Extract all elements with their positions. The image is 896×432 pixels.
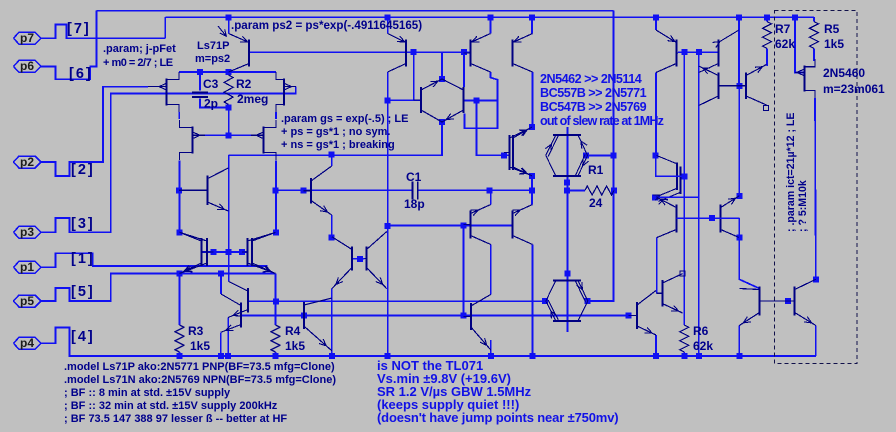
transistor Q6 clamp bbox=[463, 87, 465, 113]
junction dots vas bbox=[529, 173, 535, 179]
wire P1 emitter riser bbox=[228, 17, 230, 33]
resistor R6 bbox=[680, 325, 689, 352]
junction dots output bus bbox=[460, 313, 466, 319]
wire vas bottom drop bbox=[531, 176, 533, 205]
wire jfet drain tie bbox=[179, 71, 276, 73]
wire P2 collector drop bbox=[387, 72, 389, 356]
junction dots upper base bus bbox=[461, 49, 467, 55]
wire p6 net bbox=[41, 11, 96, 80]
transistor Q26 bias NPN bbox=[303, 302, 305, 329]
wire output drop to R1 level bbox=[613, 156, 615, 295]
junction dots C1 line bbox=[273, 187, 279, 193]
junction dots rail B bbox=[226, 14, 232, 20]
svg-text:(doesn't have jump points near: (doesn't have jump points near ±750mv) bbox=[377, 410, 618, 425]
transistor Q3 mirror PNP bbox=[470, 40, 472, 67]
svg-text:[4]: [4] bbox=[71, 329, 95, 345]
transistor Q7 tail NPN bbox=[240, 303, 242, 328]
jfet J5 2N5460 bbox=[803, 66, 805, 92]
junction dots clamp0 bbox=[439, 76, 445, 82]
dashed selection box bbox=[775, 11, 858, 364]
junction dots rail B bbox=[385, 14, 391, 20]
wire R6 bottom bbox=[683, 352, 685, 356]
junction dots V- rail bbox=[653, 353, 659, 359]
wire lower jfet gate tie bbox=[205, 134, 251, 136]
svg-text:18p: 18p bbox=[404, 197, 425, 211]
junction dots clamp1 chain bbox=[611, 188, 617, 194]
transistor Q19 flipped NPN bbox=[745, 73, 747, 100]
junction dots pnp base row bbox=[460, 223, 466, 229]
pin flag p5 bbox=[14, 295, 42, 307]
wire p1 net bbox=[41, 253, 268, 267]
wire J1-J3 link bbox=[178, 112, 180, 119]
svg-text:R7: R7 bbox=[775, 22, 791, 36]
transistor Q28 stub NPN bbox=[662, 280, 664, 307]
capacitor C3 bbox=[192, 92, 208, 94]
svg-text:R4: R4 bbox=[285, 324, 301, 338]
junction dot out base bbox=[785, 298, 791, 304]
wire R4 bottom bbox=[275, 352, 277, 356]
svg-text:2meg: 2meg bbox=[237, 92, 268, 106]
transistor Q7b tail NPN parallel bbox=[247, 288, 249, 313]
junction dots V- rail bbox=[329, 353, 335, 359]
transistor Q20 PNP bbox=[675, 40, 677, 67]
wire P6L emitter riser bbox=[738, 17, 740, 86]
wire Q23 Q24 base tie bbox=[677, 217, 740, 219]
wire C1 line left bbox=[276, 189, 413, 191]
wire C3 bottom lead bbox=[200, 99, 229, 108]
transistor Q11 NPN bbox=[351, 247, 353, 271]
wire right emitter to R4 bbox=[275, 274, 277, 326]
wire V+ rail B bbox=[165, 16, 814, 18]
wire vas base drop bbox=[477, 101, 510, 156]
junction dots vas bbox=[529, 187, 535, 193]
svg-text:24: 24 bbox=[589, 196, 603, 210]
wire Q7b emitter drop bbox=[227, 318, 229, 357]
wire mirror base bus bbox=[202, 251, 248, 253]
svg-text:p3: p3 bbox=[20, 225, 34, 239]
wire vas top to rail bbox=[531, 17, 533, 33]
svg-text:; BF :: 8 min at std. ±15V sup: ; BF :: 8 min at std. ±15V supply bbox=[64, 387, 231, 399]
svg-text:p7: p7 bbox=[20, 31, 34, 45]
wire p7 to rail B riser bbox=[164, 17, 166, 38]
svg-text:p5: p5 bbox=[20, 294, 34, 308]
svg-text:.param ps2 = ps*exp(-.49116451: .param ps2 = ps*exp(-.4911645165) bbox=[231, 19, 422, 32]
wire comp-out row bbox=[248, 300, 545, 302]
junction dots emitter taps bbox=[177, 271, 183, 277]
junction dots output bus bbox=[301, 313, 307, 319]
wire Qmid emitter tail bbox=[331, 351, 333, 356]
transistor Q33 cascode NPN bbox=[207, 176, 209, 206]
wire Q7 emitter drops bbox=[220, 332, 222, 356]
svg-text:1k5: 1k5 bbox=[824, 37, 844, 51]
wire right emitter row bbox=[230, 273, 276, 275]
wire pair330 left emitter drop bbox=[331, 289, 333, 356]
junction dots clamp1 chain bbox=[564, 188, 570, 194]
junction dots pnp base row bbox=[385, 223, 391, 229]
junction dots V- rail bbox=[177, 353, 183, 359]
wire output pnp base row bbox=[388, 225, 513, 227]
junction dot clamp2 top bbox=[565, 270, 571, 276]
junction dots C1 line bbox=[487, 187, 493, 193]
wire J3 source to mirror bbox=[179, 161, 181, 233]
svg-text:p6: p6 bbox=[20, 59, 34, 73]
wire out column bbox=[698, 52, 700, 356]
svg-text:R2: R2 bbox=[236, 77, 252, 91]
wire Ptr2 collector drop bbox=[739, 238, 759, 289]
junction dots mirror base bus bbox=[239, 249, 245, 255]
wire R7 bottom lead bbox=[766, 48, 769, 65]
svg-text:[5]: [5] bbox=[71, 284, 95, 300]
svg-text:[1]: [1] bbox=[71, 251, 95, 267]
wire P2 emitter riser bbox=[387, 17, 389, 33]
transistor Q5 clamp bbox=[420, 87, 422, 113]
svg-text:[3]: [3] bbox=[71, 216, 95, 232]
wire clamp chain vertical bbox=[566, 127, 568, 332]
svg-text:.model Ls71P ako:2N5771 PNP(BF: .model Ls71P ako:2N5771 PNP(BF=73.5 mfg=… bbox=[64, 361, 335, 373]
wire clamp0 bottom vertex down bbox=[229, 122, 442, 155]
wire clamp0 right base bbox=[464, 100, 498, 102]
svg-text:p1: p1 bbox=[20, 260, 34, 274]
junction dots V- rail bbox=[681, 353, 687, 359]
pin flag p6 bbox=[14, 60, 42, 72]
junction dots clamp2 bbox=[542, 298, 548, 304]
wire R5 top bbox=[813, 17, 815, 21]
wire Nob2 emitter to rail bbox=[655, 335, 657, 356]
svg-text:BC547B >> 2N5769: BC547B >> 2N5769 bbox=[540, 100, 647, 114]
transistor Q25 bias NPN bbox=[470, 303, 472, 330]
transistor Q21 PNP bbox=[717, 40, 719, 67]
wire output drop to clamp bottom bbox=[587, 295, 613, 302]
wire P4 collector to vas bbox=[532, 72, 534, 127]
svg-text:2N5462 >> 2N5114: 2N5462 >> 2N5114 bbox=[540, 72, 642, 86]
junction dots rail B bbox=[792, 14, 798, 20]
wire R1 left lead bbox=[567, 190, 585, 192]
wire clamp1 right vertex to out bbox=[586, 155, 614, 157]
wire P3 collector hook bbox=[465, 72, 498, 128]
svg-text:1k5: 1k5 bbox=[190, 339, 210, 353]
wire P5L base bus bbox=[678, 51, 718, 53]
transistor Q2 input mirror PNP bbox=[405, 40, 407, 67]
junction dot 5460 source bbox=[813, 276, 819, 282]
svg-text:BC557B >> 2N5771: BC557B >> 2N5771 bbox=[540, 86, 647, 100]
svg-text:[2]: [2] bbox=[71, 162, 95, 178]
pin flag p3 bbox=[14, 226, 42, 238]
wire output rail A from p6 across top bbox=[96, 10, 613, 12]
svg-text:[7]: [7] bbox=[67, 21, 91, 37]
svg-text:[6]: [6] bbox=[69, 66, 93, 82]
pin flag p1 bbox=[14, 261, 42, 273]
wire 2N5460 gate feed bbox=[795, 17, 804, 72]
junction dots V- rail bbox=[488, 353, 494, 359]
wire Q31 emitter stub bbox=[490, 190, 492, 204]
svg-text:; .param ict=21µ*12 ; LE: ; .param ict=21µ*12 ; LE bbox=[785, 113, 797, 232]
svg-text:; BF :: 32 min at std. ±15V su: ; BF :: 32 min at std. ±15V supply 200kH… bbox=[64, 400, 278, 412]
junction dots node155 bbox=[652, 153, 658, 159]
svg-text:p4: p4 bbox=[20, 336, 34, 350]
junction dot R2 bottom bbox=[226, 104, 232, 110]
wire Q22 emitter to out bbox=[655, 196, 699, 198]
svg-text:1k5: 1k5 bbox=[285, 339, 305, 353]
transistor Q29 output NPN bbox=[759, 287, 761, 316]
wire Q7 coll stub bbox=[220, 274, 222, 295]
wire bias jumper bbox=[462, 226, 464, 316]
jfet J4 cascode bbox=[263, 127, 265, 154]
junction dots driver emitters bbox=[652, 194, 658, 200]
svg-text:C3: C3 bbox=[203, 77, 219, 91]
svg-text:+ m0 = 2/7 ; LE: + m0 = 2/7 ; LE bbox=[103, 57, 173, 69]
wire Q22 collector-base link bbox=[656, 155, 685, 176]
wire J2-J4 link bbox=[275, 112, 277, 119]
junction dot flipped base bbox=[736, 83, 742, 89]
wire vas out drop to rail bbox=[532, 245, 534, 357]
svg-text:p2: p2 bbox=[20, 155, 34, 169]
wire Qob1 collector drop bbox=[490, 245, 492, 295]
junction dots rail B bbox=[736, 14, 742, 20]
junction dots rail B bbox=[764, 14, 770, 20]
wire p2 net bbox=[41, 87, 148, 176]
pin flag p4 bbox=[14, 337, 42, 349]
transistor Q1 input mirror PNP bbox=[248, 40, 250, 67]
wire pair330 base tie bbox=[353, 258, 365, 260]
svg-text:62k: 62k bbox=[775, 37, 795, 51]
junction dots V- rail bbox=[225, 353, 231, 359]
junction dot pair330 bbox=[329, 235, 335, 241]
junction dots V- rail bbox=[736, 353, 742, 359]
wire output rail right drop bbox=[613, 11, 615, 156]
svg-text:62k: 62k bbox=[693, 339, 713, 353]
svg-text:Ls71P: Ls71P bbox=[197, 40, 229, 52]
transistor Q23 output PNP bbox=[676, 205, 678, 233]
wire p3 net bbox=[41, 87, 296, 233]
transistor Q30 output NPN bbox=[794, 287, 796, 316]
wire C3 top lead bbox=[199, 72, 201, 91]
junction dots driver emitters bbox=[736, 193, 742, 199]
wire cascode column bbox=[228, 155, 230, 281]
junction dots mirror collectors bbox=[273, 229, 279, 235]
svg-text:.param gs = exp(-.5) ; LE: .param gs = exp(-.5) ; LE bbox=[281, 113, 408, 125]
transistor Q22 driver PNP x2 bbox=[676, 162, 678, 190]
junction dots vas bbox=[529, 124, 535, 130]
junction dot pair330 bbox=[357, 256, 363, 262]
junction dots jfet top bbox=[226, 69, 232, 75]
wire emitter tap link bbox=[180, 273, 231, 275]
resistor R2 bbox=[224, 75, 233, 105]
junction dot P2 collector bbox=[385, 97, 391, 103]
wire upper mirror base bus bbox=[249, 51, 471, 53]
junction dots mirror collectors bbox=[177, 229, 183, 235]
junction dots V- rail bbox=[530, 353, 536, 359]
wire P5L emitter riser bbox=[655, 17, 657, 30]
junction dots V- rail bbox=[273, 353, 279, 359]
wire Ptl2 collector drop bbox=[656, 238, 658, 294]
transistor pair Q16 Q17 clamp bbox=[553, 279, 581, 281]
resistor R5 bbox=[810, 22, 819, 49]
resistor R7 bbox=[763, 22, 772, 49]
wire 2N5460 source drop bbox=[814, 98, 817, 279]
pointer arrow Ls71P bbox=[218, 26, 227, 37]
junction dots upper base bus bbox=[681, 49, 687, 55]
transistor Q24 output PNP bbox=[720, 205, 722, 233]
transistor Q32 flipped NPN bbox=[512, 211, 514, 239]
resistor R4 bbox=[271, 325, 280, 352]
resistor R3 bbox=[175, 325, 184, 352]
wire Nor2 emitter to rail bbox=[815, 326, 817, 357]
junction dot Ptr2 coll bbox=[736, 235, 742, 241]
unconnected stub marker 2 bbox=[764, 106, 769, 111]
wire output base bus bbox=[241, 315, 628, 317]
junction dots rail B bbox=[653, 14, 659, 20]
wire P4 emitter riser bbox=[531, 17, 533, 33]
transistor Q27 bias NPN bbox=[636, 302, 638, 329]
junction dots V- rail bbox=[218, 353, 224, 359]
svg-text:R5: R5 bbox=[824, 22, 840, 36]
transistor Q9 mirror NPN bbox=[247, 238, 249, 266]
pin flag p2 bbox=[14, 156, 42, 168]
svg-text:+ ps = gs*1 ; no sym.: + ps = gs*1 ; no sym. bbox=[281, 126, 390, 138]
wire Q311 emitter drop bbox=[331, 215, 333, 238]
wire Qob1 emitter to rail bbox=[490, 340, 492, 356]
svg-text:.param; j-pFet: .param; j-pFet bbox=[103, 43, 176, 55]
junction dots emitter taps bbox=[218, 271, 224, 277]
svg-text:2p: 2p bbox=[204, 97, 218, 111]
svg-text:m=ps2: m=ps2 bbox=[195, 53, 230, 65]
svg-text:; ? 5:M10k: ; ? 5:M10k bbox=[797, 180, 809, 232]
junction dots rail B bbox=[529, 14, 535, 20]
junction dot gate tie bbox=[226, 132, 232, 138]
junction dot R6 tap bbox=[681, 173, 687, 179]
transistor Q4 mirror PNP bbox=[512, 40, 514, 67]
wire Nor emitter to rail bbox=[738, 326, 740, 357]
wire P2c to clamp base bbox=[388, 99, 421, 101]
transistor Q31 flipped NPN bbox=[470, 211, 472, 239]
wire P5L collector drop bbox=[655, 73, 657, 156]
junction dots node155 bbox=[611, 153, 617, 159]
jfet J3 cascode bbox=[192, 127, 194, 154]
junction dot 712 bbox=[709, 215, 715, 221]
junction dots clamp0 bbox=[439, 119, 445, 125]
junction dots rail B bbox=[488, 14, 494, 20]
unconnected stub marker bbox=[680, 271, 685, 276]
svg-text:R1: R1 bbox=[588, 163, 604, 177]
junction dots mirror base bus bbox=[225, 249, 231, 255]
wire C1 line right bbox=[418, 189, 532, 191]
wire P3 emitter riser bbox=[490, 17, 492, 33]
svg-text:; BF 73.5 147 388 97 lesser ß: ; BF 73.5 147 388 97 lesser ß -- better … bbox=[64, 413, 287, 425]
jfet J2 input bbox=[283, 79, 285, 106]
junction dots node155 bbox=[583, 153, 589, 159]
svg-text:+ ns = gs*1 ; breaking: + ns = gs*1 ; breaking bbox=[281, 139, 395, 151]
wire p4 net to V- rail bbox=[41, 328, 816, 357]
wire clamp0 top vertex up bbox=[441, 52, 443, 79]
junction dots node155 bbox=[329, 152, 335, 158]
junction dot clamp0 base bbox=[474, 98, 480, 104]
pin flag p7 bbox=[14, 32, 42, 44]
wire R5 bottom bbox=[814, 48, 815, 60]
jfet J1 input bbox=[166, 79, 168, 106]
junction dots mirror base bus bbox=[211, 249, 217, 255]
wire p7 net bbox=[41, 24, 165, 38]
wire mirror diode jumper bbox=[463, 52, 465, 87]
junction dots V- rail bbox=[385, 353, 391, 359]
capacitor C1 bbox=[412, 181, 414, 199]
transistor pair Q14 Q15 clamp bbox=[553, 134, 581, 136]
svg-text:C1: C1 bbox=[406, 170, 422, 184]
wire R6 column bbox=[683, 52, 685, 325]
svg-text:.model Ls71N ako:2N5769 NPN(BF: .model Ls71N ako:2N5769 NPN(BF=73.5 mfg=… bbox=[64, 374, 336, 386]
junction dots C1 line bbox=[301, 187, 307, 193]
transistor Q8 mirror NPN bbox=[201, 238, 203, 266]
wire p5 net bbox=[41, 274, 180, 302]
junction dots upper base bus bbox=[696, 49, 702, 55]
wire Q32 emitter stub bbox=[531, 190, 533, 204]
transistor pair Q13 VAS bbox=[509, 135, 511, 170]
transistor Q18 flipped NPN bbox=[717, 73, 719, 100]
junction dots output bus bbox=[625, 313, 631, 319]
junction dots clamp1 chain bbox=[564, 179, 570, 185]
svg-text:R3: R3 bbox=[188, 324, 204, 338]
wire R7 top bbox=[766, 17, 768, 21]
wire R3 bottom bbox=[179, 352, 181, 356]
svg-text:out of slew rate at 1MHz: out of slew rate at 1MHz bbox=[540, 114, 664, 128]
junction dots jfet top bbox=[197, 69, 203, 75]
svg-text:R6: R6 bbox=[693, 324, 709, 338]
junction dot comp row bbox=[273, 298, 279, 304]
wire clamp0 base jumper bbox=[413, 52, 415, 100]
junction dots node155 bbox=[501, 152, 507, 158]
junction dots V- rail bbox=[696, 353, 702, 359]
junction dots upper base bus bbox=[411, 49, 417, 55]
wire Q311 collector stub bbox=[331, 155, 333, 166]
transistor Q12 NPN bbox=[366, 247, 368, 271]
svg-text:m=23m061: m=23m061 bbox=[823, 82, 885, 96]
transistor Q10 VAS NPN bbox=[310, 178, 312, 204]
wire J4 source to mirror bbox=[275, 161, 277, 233]
wire node R2 bottom to gates bbox=[228, 107, 230, 135]
wire left emitter to R3 bbox=[179, 274, 181, 326]
resistor R1 bbox=[585, 186, 614, 195]
junction dots clamp2 bbox=[584, 298, 590, 304]
wire flipped base drop bbox=[738, 86, 740, 196]
svg-text:2N5460: 2N5460 bbox=[823, 66, 865, 80]
junction dot Q33 base bbox=[176, 187, 182, 193]
